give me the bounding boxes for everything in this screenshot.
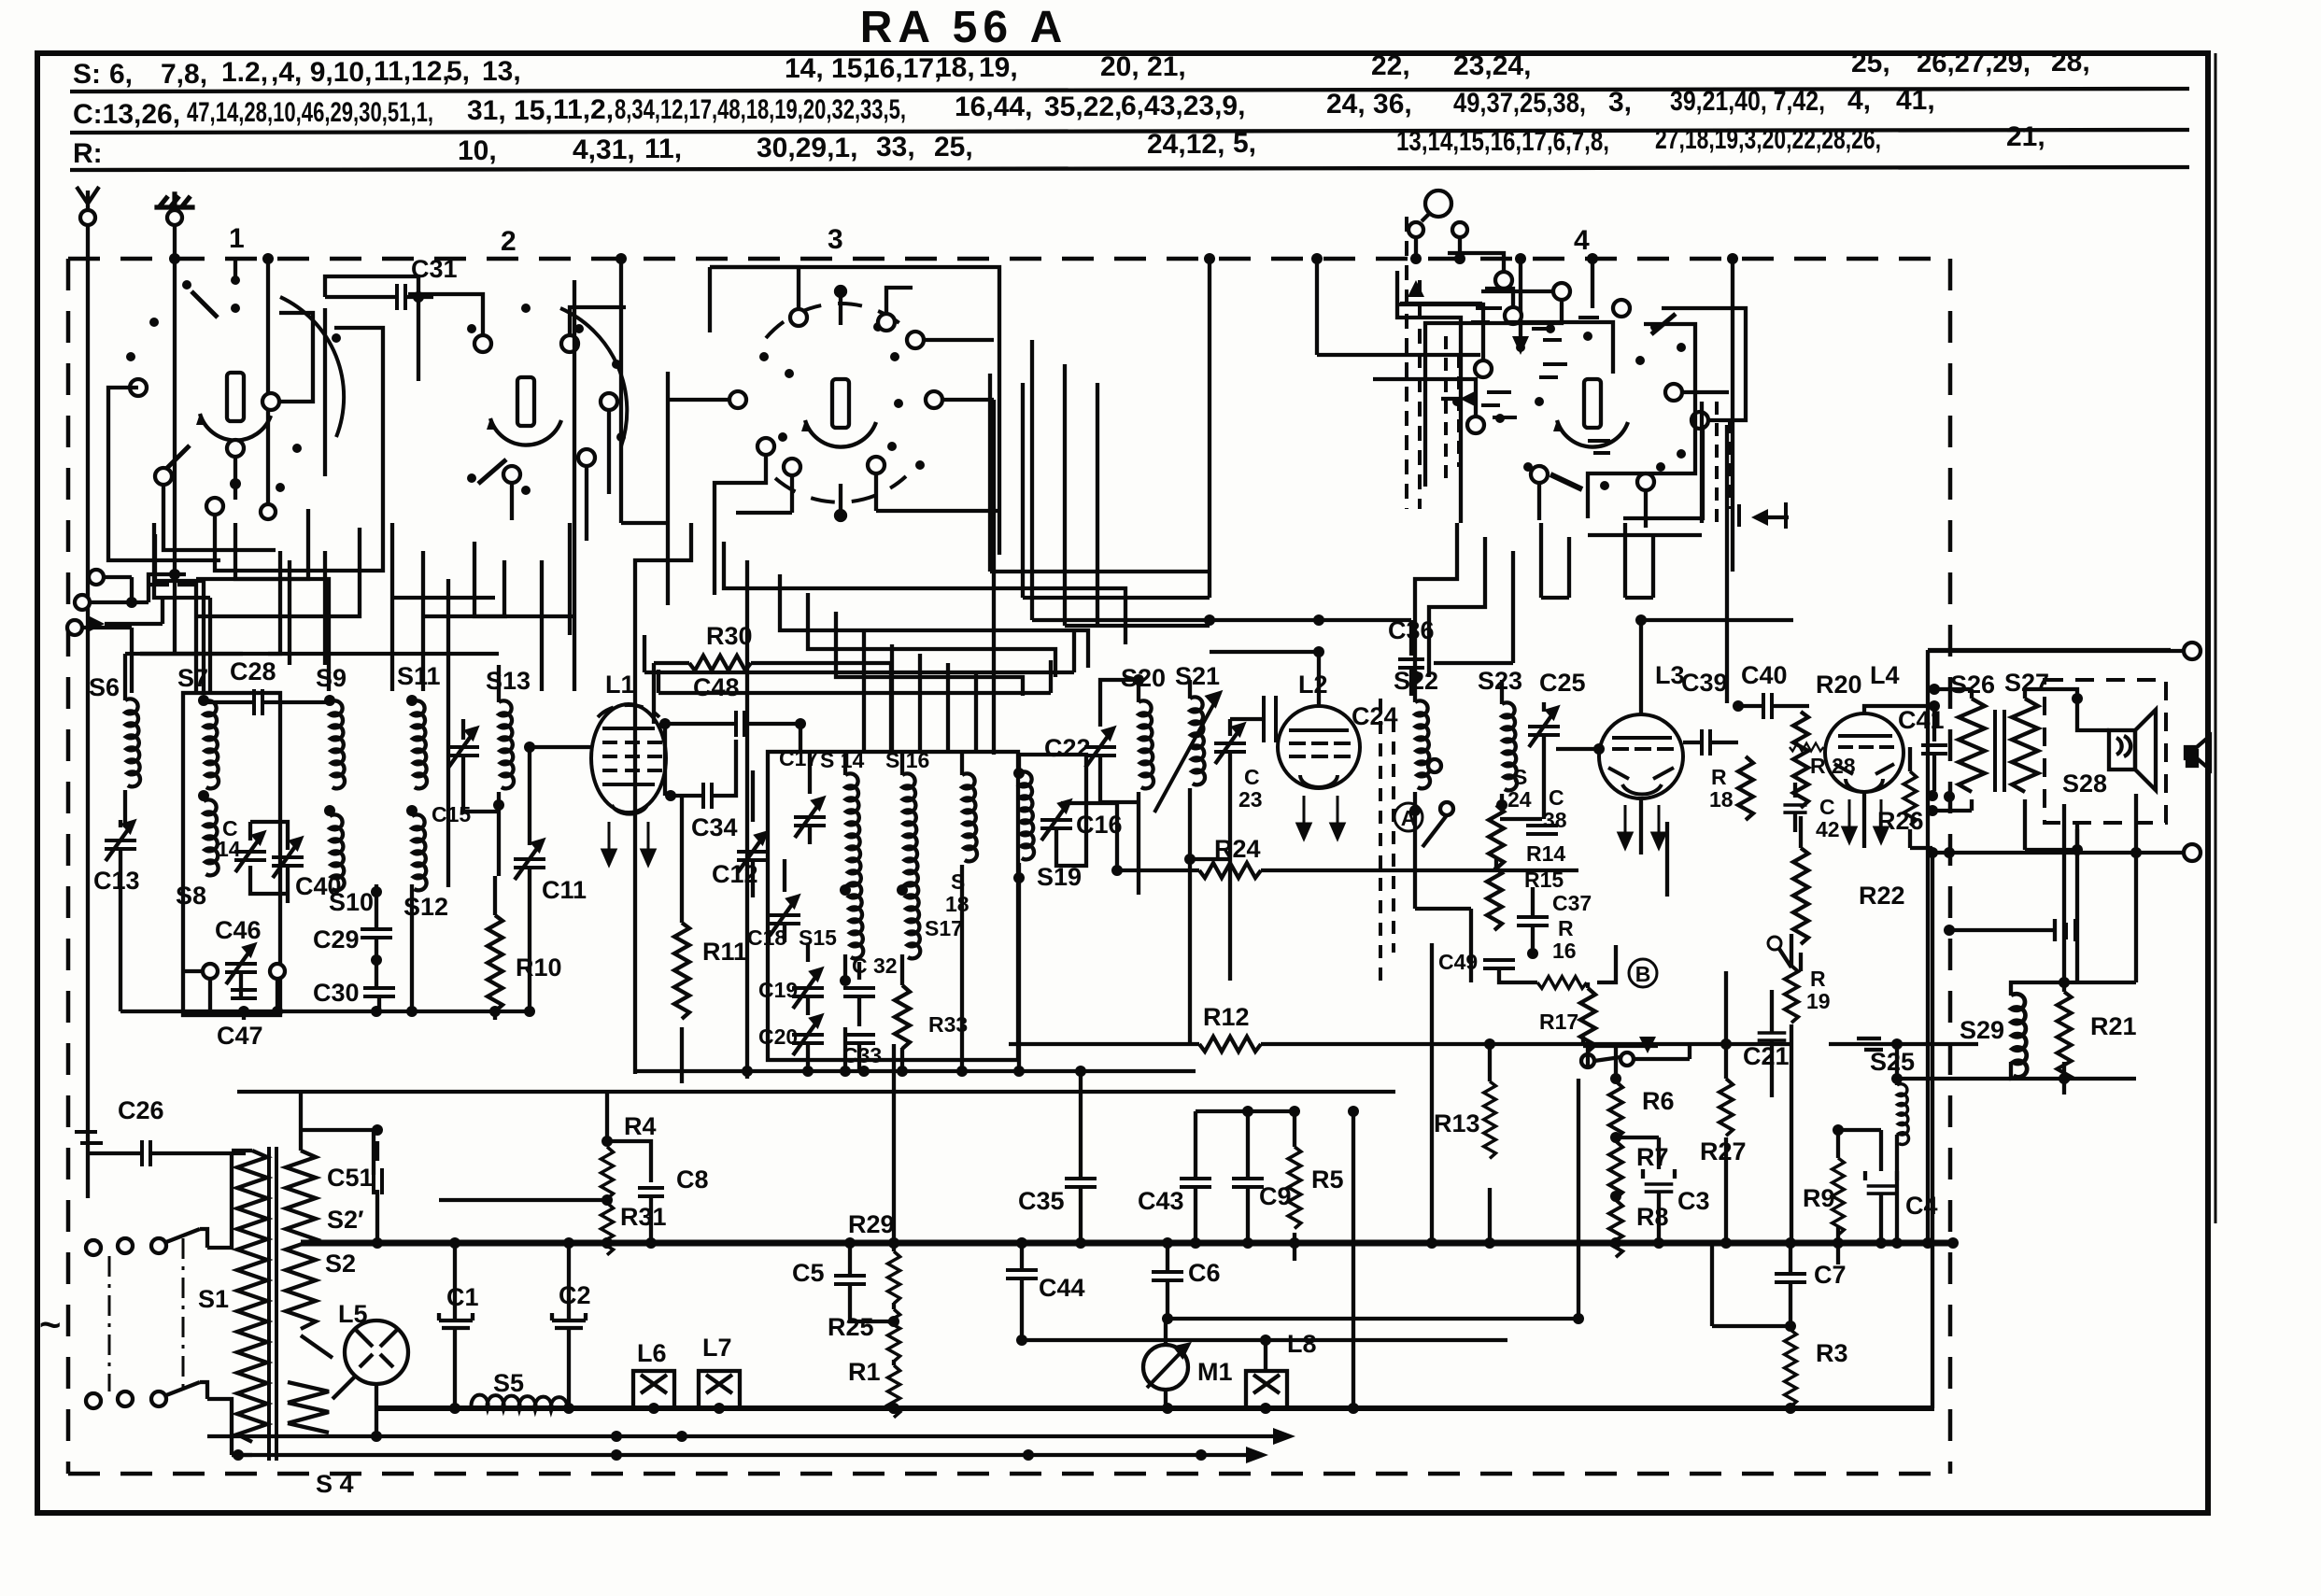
speaker wires — [2077, 699, 2109, 848]
switch contact near R19 — [1768, 937, 1781, 950]
svg-text:27,18,19,3,20,22,28,26,: 27,18,19,3,20,22,28,26, — [1655, 124, 1881, 155]
trimmer C16 — [1040, 801, 1072, 840]
switch1 wiring harness — [108, 259, 383, 571]
svg-text:16,17,: 16,17, — [864, 53, 941, 84]
wire bundle below switch1 — [140, 523, 329, 693]
svg-text:R14: R14 — [1526, 841, 1565, 866]
S13 leads — [463, 665, 499, 876]
wire mid horizontals above coil row — [268, 652, 499, 656]
resistor R10 — [488, 915, 502, 1011]
IF can box S14/S16 — [768, 752, 1018, 1060]
svg-text:10,: 10, — [458, 135, 497, 166]
svg-text:C1: C1 — [446, 1283, 479, 1311]
svg-text:R20: R20 — [1816, 671, 1862, 699]
trimmer C12 — [737, 833, 769, 872]
wire bottom row of RF section — [120, 1010, 530, 1013]
capacitor C30 — [363, 988, 395, 996]
C49 capacitor — [1483, 960, 1515, 968]
wire R17 bottom to bus — [1586, 982, 1590, 1067]
junction jack tip — [1410, 253, 1422, 264]
border right emphasis — [2215, 53, 2217, 1223]
svg-text:30,29,1,: 30,29,1, — [757, 133, 857, 163]
capacitor C34 — [703, 783, 712, 809]
svg-text:S25: S25 — [1870, 1048, 1915, 1076]
mains dash-dot link — [108, 1256, 111, 1391]
second bus dots — [449, 1403, 1796, 1414]
svg-text:S13: S13 — [486, 667, 531, 695]
wire C31 loop — [325, 276, 418, 476]
svg-text:C: C — [1819, 795, 1835, 819]
R22 resistor — [1793, 848, 1808, 944]
resistor R20 — [1793, 712, 1808, 808]
svg-text:19: 19 — [1806, 989, 1831, 1013]
resistor R11 — [674, 923, 689, 1019]
svg-text:5,: 5, — [446, 56, 470, 87]
rotary switch wafer symbol — [0, 0, 1, 1]
svg-text:R4: R4 — [624, 1112, 657, 1140]
svg-text:11,12,: 11,12, — [374, 56, 450, 87]
capacitor C4 — [1867, 1186, 1896, 1193]
resistor R13 — [1484, 1081, 1496, 1158]
svg-text:B: B — [1635, 962, 1651, 986]
svg-text:21,: 21, — [2006, 121, 2045, 152]
svg-text:25,: 25, — [1851, 48, 1890, 78]
svg-text:R3: R3 — [1816, 1339, 1848, 1367]
L2 anode lead — [1317, 650, 1321, 706]
resistor R5 — [1288, 1147, 1301, 1229]
svg-text:C22: C22 — [1044, 734, 1091, 762]
S25 dashes — [1857, 1038, 1883, 1050]
wire row y1147 — [635, 1069, 1196, 1073]
S21 arrow — [1154, 693, 1220, 812]
bus junction dots — [372, 1237, 1933, 1249]
A circle label — [1394, 803, 1422, 831]
svg-text:S 4: S 4 — [316, 1470, 354, 1498]
trimmer C40 — [272, 839, 304, 878]
svg-text:S17: S17 — [925, 916, 963, 940]
wire C47 bottom leads — [244, 884, 412, 1020]
svg-text:C47: C47 — [217, 1022, 263, 1050]
svg-text:C43: C43 — [1138, 1187, 1184, 1215]
wire bundle below switch2 extra — [196, 509, 574, 691]
junction ground on chassis line — [169, 253, 180, 264]
switch4 lever low — [1550, 474, 1582, 489]
svg-text:31, 15,: 31, 15, — [467, 95, 553, 126]
wire meter/L8 row — [1166, 1319, 1266, 1371]
wire verticals between switch3 and L2 — [1032, 340, 1210, 626]
svg-text:S6: S6 — [89, 673, 120, 701]
svg-text:13,: 13, — [482, 56, 521, 87]
wire nested below switch3 extra — [644, 630, 1074, 693]
capacitor C32 — [843, 988, 875, 996]
wires S23 block — [1494, 680, 1616, 982]
switch3 nested wires below — [710, 267, 999, 755]
header rule under S row — [70, 89, 2189, 92]
svg-text:13,14,15,16,17,6,7,8,: 13,14,15,16,17,6,7,8, — [1396, 126, 1609, 157]
svg-text:33,: 33, — [876, 132, 915, 162]
svg-text:C33: C33 — [842, 1043, 882, 1067]
svg-text:18: 18 — [1709, 787, 1734, 812]
rotary switch unit 3 wafer — [801, 379, 876, 447]
R6 chain junctions — [1610, 1073, 1621, 1084]
wire R19-R27 row — [1578, 1042, 1978, 1046]
S6 leads — [123, 654, 127, 827]
svg-text:C2: C2 — [559, 1281, 591, 1309]
coil S19 — [1019, 771, 1034, 859]
svg-text:35,22,: 35,22, — [1044, 92, 1122, 122]
junction chassis x665 — [616, 253, 627, 264]
S7/S8 junction — [198, 695, 209, 706]
svg-text:L3: L3 — [1655, 661, 1685, 689]
svg-text:R:: R: — [73, 138, 103, 169]
svg-text:R25: R25 — [828, 1313, 874, 1341]
svg-text:L1: L1 — [605, 671, 635, 699]
C13 leads — [119, 820, 122, 1011]
R17 resistor — [1580, 988, 1595, 1052]
capacitor C51 — [374, 1168, 382, 1194]
resistor R9 — [1833, 1158, 1845, 1235]
svg-text:16,44,: 16,44, — [955, 92, 1032, 122]
node arrow marker left — [90, 616, 105, 631]
svg-text:26,27,29,: 26,27,29, — [1917, 48, 2031, 78]
wire x1196 vertical — [1061, 803, 1117, 870]
wire bundle below switch2 — [392, 523, 570, 887]
S19/C16 loop — [1019, 755, 1086, 919]
left terminal cluster — [67, 570, 186, 693]
C29/C30 leads — [376, 884, 379, 1011]
S18 leads — [960, 755, 964, 1071]
IF2 dashed can — [1380, 699, 1394, 988]
svg-text:6,43,23,9,: 6,43,23,9, — [1121, 91, 1245, 121]
header rule under C row — [70, 130, 2189, 133]
svg-text:C11: C11 — [542, 876, 587, 904]
capacitor C31 — [397, 284, 405, 310]
switch A contact — [1422, 759, 1453, 847]
svg-text:C6: C6 — [1188, 1259, 1221, 1287]
svg-text:L8: L8 — [1287, 1330, 1317, 1358]
resistor R19 — [1785, 966, 1798, 1023]
wire right side long verticals — [2064, 794, 2136, 982]
switch3 harness left — [668, 267, 994, 605]
svg-text:C5: C5 — [792, 1259, 825, 1287]
svg-text:5,: 5, — [1233, 128, 1256, 159]
switch4 dashed fragments — [1446, 336, 1730, 523]
switch3 dashed arcs — [766, 304, 915, 502]
header R row labels — [73, 121, 2045, 169]
wire nested switch3 loops — [635, 523, 1125, 1079]
svg-text:R31: R31 — [620, 1203, 667, 1231]
capacitor C5 — [834, 1276, 866, 1284]
junction chassis x1705 — [1587, 253, 1598, 264]
coupling cap C24 stub — [1264, 696, 1276, 742]
R16 resistor — [1537, 977, 1587, 989]
svg-text:24: 24 — [1507, 787, 1532, 812]
switch4 extra dots — [1452, 332, 1686, 459]
svg-text:R1: R1 — [848, 1358, 881, 1386]
capacitor C8 — [638, 1188, 664, 1196]
wire switch4 bundle down — [1415, 523, 1653, 677]
svg-text:47,14,28,10,46,29,30,51,1,: 47,14,28,10,46,29,30,51,1, — [187, 97, 433, 128]
transformer core — [1995, 710, 2004, 792]
svg-text:C46: C46 — [215, 916, 262, 944]
R15 resistor — [1487, 867, 1502, 930]
svg-text:18,: 18, — [936, 52, 975, 83]
svg-text:16: 16 — [1552, 939, 1577, 963]
capacitor C47 — [231, 990, 257, 998]
svg-text:S10: S10 — [329, 888, 374, 916]
svg-text:S15: S15 — [799, 925, 837, 950]
svg-text:R9: R9 — [1803, 1184, 1835, 1212]
node stub 1 — [262, 253, 274, 264]
resistor R6 — [1609, 1081, 1622, 1138]
main bus B+ (thick) — [301, 1240, 1953, 1247]
transformer core — [269, 1147, 276, 1461]
svg-text:R22: R22 — [1859, 882, 1905, 910]
svg-text:C25: C25 — [1539, 669, 1586, 697]
svg-text:R12: R12 — [1203, 1003, 1250, 1031]
svg-text:L7: L7 — [702, 1334, 732, 1362]
svg-text:23,24,: 23,24, — [1453, 50, 1531, 81]
S22 leads — [1413, 676, 1417, 815]
switch B lever — [1581, 1052, 1634, 1067]
svg-text:24,12,: 24,12, — [1147, 129, 1224, 160]
svg-text:R13: R13 — [1434, 1109, 1480, 1137]
svg-text:C13: C13 — [93, 867, 140, 895]
svg-text:1.2,: 1.2, — [221, 57, 268, 88]
svg-text:1: 1 — [229, 223, 245, 254]
svg-text:R27: R27 — [1700, 1137, 1747, 1165]
svg-text:C35: C35 — [1018, 1187, 1065, 1215]
svg-text:C: C — [1244, 765, 1260, 789]
resistor R7 — [1609, 1141, 1622, 1198]
svg-text:R11: R11 — [702, 938, 747, 966]
wire S19 down — [1017, 919, 1021, 1071]
resistor R26 — [1904, 771, 1917, 826]
C31 leads — [325, 295, 433, 299]
wire S29 R21 to S25 row — [1897, 1077, 2136, 1080]
svg-text:R: R — [1810, 967, 1826, 991]
resistor R18 — [1738, 756, 1753, 820]
mains terminals upper — [86, 1240, 101, 1255]
right speaker glyph — [2186, 736, 2210, 770]
svg-text:14: 14 — [217, 837, 241, 861]
svg-text:28,: 28, — [2051, 47, 2090, 78]
wire L1 anode to R30/C48 — [654, 663, 891, 796]
svg-text:42: 42 — [1816, 817, 1840, 841]
second bus (thick) — [376, 1405, 1934, 1411]
switch4 small dashes pattern — [1471, 308, 1599, 377]
trimmer C22 — [1084, 728, 1116, 768]
R chain junctions — [888, 1237, 899, 1249]
capacitor C43 — [1180, 1179, 1211, 1187]
svg-text:S2: S2 — [325, 1250, 356, 1278]
svg-text:L6: L6 — [637, 1339, 667, 1367]
switch2 outer arc — [560, 308, 627, 446]
svg-text:RA 56 A: RA 56 A — [860, 3, 1069, 52]
dashes near triangle right — [1739, 502, 1786, 529]
svg-text:R17: R17 — [1539, 1010, 1578, 1034]
C26 dashes — [75, 1132, 103, 1143]
ground symbol — [154, 191, 194, 207]
svg-text:23: 23 — [1238, 787, 1263, 812]
trimmer C19 — [792, 969, 824, 1009]
svg-text:S: S — [1513, 765, 1527, 789]
svg-text:R6: R6 — [1642, 1087, 1675, 1115]
svg-text:14, 15,: 14, 15, — [785, 53, 870, 84]
junction chassis x1628 — [1515, 253, 1526, 264]
switch2 terminals — [474, 335, 617, 483]
switch4 extra terminals — [1553, 283, 1630, 317]
svg-text:S1: S1 — [198, 1285, 229, 1313]
svg-text:C51: C51 — [327, 1164, 374, 1192]
junction chassis x1295 — [1204, 253, 1215, 264]
wire dots row y1147 — [742, 1066, 753, 1077]
R4 junction/wires — [601, 1136, 613, 1147]
switch1 lever b — [163, 445, 190, 472]
arrow feed line 1 — [207, 1434, 1277, 1438]
switch3 top pointer — [836, 287, 845, 325]
svg-text:R26: R26 — [1877, 807, 1924, 835]
svg-text:C44: C44 — [1039, 1274, 1085, 1302]
svg-text:C28: C28 — [230, 657, 276, 685]
capacitor C44 — [1006, 1270, 1038, 1278]
svg-text:S:: S: — [73, 59, 101, 90]
C14/C40 leads — [250, 822, 288, 903]
resistor R21 — [2057, 992, 2071, 1083]
trimmer C11 — [514, 840, 545, 880]
svg-text:S2′: S2′ — [327, 1206, 364, 1234]
svg-text:6,: 6, — [109, 59, 133, 90]
svg-text:38: 38 — [1543, 808, 1567, 832]
arrow line dots — [371, 1431, 382, 1442]
wire L3 bottom leads — [1641, 798, 1667, 897]
resistor R8 — [1609, 1200, 1622, 1257]
trimmer C13 — [105, 822, 136, 861]
svg-text:S28: S28 — [2062, 770, 2107, 798]
capacitor C21 — [1758, 1033, 1787, 1040]
wire right trunk verticals — [1588, 402, 1727, 703]
output terminal bottom — [2184, 844, 2201, 861]
svg-text:22,: 22, — [1371, 50, 1410, 81]
capacitor C9 — [1232, 1179, 1264, 1187]
wire L3 anode up — [1641, 620, 1793, 714]
wire transformer bottoms — [1932, 811, 2077, 850]
trimmer C20 — [792, 1016, 824, 1055]
svg-text:2: 2 — [501, 226, 517, 257]
svg-text:C20: C20 — [758, 1024, 798, 1049]
svg-text:R: R — [1711, 765, 1727, 789]
wire S22 can bottoms — [1415, 815, 1502, 1243]
C23 leads — [1230, 719, 1264, 859]
S14 block junctions/wires — [753, 752, 902, 1071]
svg-text:C26: C26 — [118, 1096, 164, 1124]
header S row labels — [73, 47, 2090, 90]
capacitor triangle right — [1751, 509, 1768, 526]
trimmer C15 — [447, 728, 479, 768]
junction chassis x1855 — [1727, 253, 1738, 264]
svg-text:R29: R29 — [848, 1210, 895, 1238]
C46/C47 box wires — [184, 964, 285, 1013]
svg-text:C19: C19 — [758, 978, 798, 1002]
antenna terminal — [77, 187, 99, 225]
trimmer C18 — [769, 897, 800, 936]
R14 resistor — [1489, 805, 1504, 869]
svg-text:L4: L4 — [1870, 661, 1900, 689]
svg-text:C21: C21 — [1743, 1042, 1790, 1070]
wire rows below switch3-4 gap — [990, 374, 1210, 598]
svg-text:C3: C3 — [1677, 1187, 1710, 1215]
wire right stub near chassis — [1949, 919, 2055, 941]
svg-text:39,21,40, 7,42,: 39,21,40, 7,42, — [1670, 86, 1825, 117]
antenna down wire — [86, 225, 90, 1198]
S20 box — [1100, 680, 1139, 895]
switch2 contact dots ring — [467, 304, 626, 495]
svg-text:S9: S9 — [316, 664, 347, 692]
svg-text:C18: C18 — [747, 925, 786, 950]
switch S1 poles — [151, 1229, 207, 1406]
header C row labels — [73, 85, 1935, 130]
svg-text:4: 4 — [1574, 225, 1590, 256]
svg-text:S5: S5 — [493, 1369, 524, 1397]
speaker dashed box — [2045, 680, 2166, 823]
mains terminals lower — [86, 1393, 101, 1408]
svg-text:C29: C29 — [313, 925, 360, 953]
capacitor C35 — [1065, 1179, 1097, 1187]
svg-text:11,2,: 11,2, — [553, 94, 614, 125]
junction dots dashed line x2087 — [1944, 791, 1955, 802]
L1 cathode arrows — [602, 822, 616, 865]
svg-text:C48: C48 — [693, 673, 740, 701]
capacitor triangle left — [1460, 390, 1477, 407]
svg-text:4,31,: 4,31, — [573, 134, 635, 165]
dash ticks near stub — [2066, 919, 2075, 941]
output terminal top — [2184, 643, 2201, 659]
svg-text:24, 36,: 24, 36, — [1326, 89, 1412, 120]
switch3 contact dots — [759, 322, 925, 470]
svg-text:L2: L2 — [1298, 671, 1328, 699]
switch4 terminals — [1467, 272, 1708, 490]
shield arrow top — [1408, 280, 1424, 297]
svg-text:S8: S8 — [176, 882, 206, 910]
svg-text:~: ~ — [39, 1305, 61, 1346]
svg-text:C4: C4 — [1905, 1192, 1938, 1220]
transformer S4 winding — [288, 1382, 329, 1433]
wire C43/C9 top — [1196, 1109, 1295, 1113]
header rule under R row — [70, 167, 2189, 170]
svg-text:,4, 9,10,: ,4, 9,10, — [271, 57, 372, 88]
switch3 bottom pointer — [836, 484, 845, 520]
svg-text:4,: 4, — [1847, 85, 1871, 116]
transformer primary — [207, 1151, 267, 1455]
L3 grid lead — [1556, 747, 1599, 751]
C37 capacitor — [1517, 917, 1549, 925]
wire x1449 vertical to bus2 — [1352, 1111, 1355, 1408]
switch1 outer arc — [280, 297, 344, 437]
svg-text:C40: C40 — [1741, 661, 1788, 689]
C7/R3 side wire — [1712, 1243, 1790, 1326]
ground wire — [173, 207, 177, 656]
C44 side wire — [1022, 1338, 1507, 1342]
capacitor C6 — [1152, 1272, 1183, 1280]
C6 side wire — [1168, 1317, 1578, 1321]
svg-text:R: R — [1558, 916, 1574, 940]
svg-text:S 14: S 14 — [820, 748, 865, 772]
wire switch4 nested hooks — [1317, 259, 1703, 523]
svg-text:C:13,26,: C:13,26, — [73, 99, 180, 130]
svg-text:3,: 3, — [1608, 87, 1632, 118]
svg-text:S29: S29 — [1960, 1016, 2004, 1044]
wire below switch1 extra — [154, 523, 325, 691]
